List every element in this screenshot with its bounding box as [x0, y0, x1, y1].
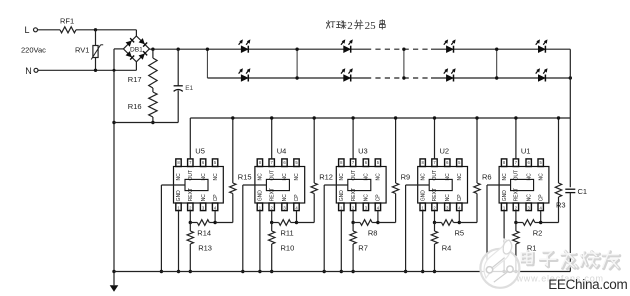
wire U1 CP pin down [540, 211, 542, 223]
resistor R7 [352, 223, 354, 232]
node RV1/N junction [94, 69, 97, 72]
svg-text:REXT: REXT [432, 188, 438, 201]
wire LED ladder tie [403, 49, 405, 78]
svg-text:REXT: REXT [269, 188, 275, 201]
wire RF1 to bridge top [76, 29, 136, 31]
varistor RV1 [95, 30, 97, 46]
svg-text:NC: NC [376, 173, 382, 181]
svg-text:NC: NC [294, 173, 300, 181]
node bottom rail left [112, 270, 115, 273]
wire IC OUT rail [190, 117, 570, 119]
resistor R12 [313, 118, 315, 183]
LED (top row) [344, 46, 351, 53]
svg-text:R9: R9 [401, 173, 411, 182]
wire U3 REXT pin down [352, 211, 354, 223]
wire L to RF1 [38, 29, 61, 31]
op-amp U3 (LED driver IC) [336, 147, 386, 211]
svg-text:R4: R4 [442, 243, 452, 252]
resistor R9 [395, 118, 397, 183]
svg-text:NC: NC [445, 173, 451, 181]
svg-text:N: N [25, 66, 32, 76]
wire U3 GND pin to bottom rail [340, 211, 342, 272]
wire U1 OUT pin to rail [515, 118, 517, 159]
svg-text:R13: R13 [198, 243, 212, 252]
wire mid rail (DC-) [114, 122, 178, 124]
ground [113, 272, 115, 286]
svg-text:NC: NC [502, 173, 508, 181]
LED (top row) [538, 46, 545, 53]
LED (top row) [446, 46, 453, 53]
svg-text:NC: NC [364, 194, 370, 202]
svg-text:REXT: REXT [514, 188, 520, 201]
svg-text:REXT: REXT [351, 188, 357, 201]
wire R3 to CP node [541, 222, 559, 224]
svg-text:NC: NC [526, 194, 532, 202]
wire U2 left feed [406, 184, 430, 186]
LED (top row) [241, 46, 248, 53]
wire U4 left feed [243, 184, 267, 186]
svg-text:RV1: RV1 [75, 46, 89, 55]
svg-text:GND: GND [339, 190, 345, 202]
op-amp U1 (LED driver IC) [499, 147, 549, 211]
wire LED string right end down [569, 49, 571, 187]
resistor R17 [151, 48, 154, 51]
wire U2 GND pin to bottom rail [422, 211, 424, 272]
svg-text:R5: R5 [455, 228, 465, 237]
wire LED ladder tie [496, 49, 498, 78]
wire U5 OUT pin to rail [189, 118, 191, 159]
svg-text:NC: NC [526, 173, 532, 181]
svg-text:GND: GND [420, 190, 426, 202]
resistor R11 [272, 222, 279, 224]
bridge rectifier DB1 [123, 36, 149, 62]
wire U3 CP pin down [377, 211, 379, 223]
wire bottom rail [114, 271, 570, 273]
svg-text:R14: R14 [197, 228, 211, 237]
wire LED string bottom row [207, 77, 366, 79]
svg-text:NC: NC [282, 173, 288, 181]
wire bridge left vertex to left vertical (DC-) [114, 48, 123, 50]
svg-text:2: 2 [347, 20, 353, 32]
svg-text:R17: R17 [128, 75, 142, 84]
svg-text:R12: R12 [319, 173, 333, 182]
svg-text:REXT: REXT [188, 188, 194, 201]
resistor R1 [515, 223, 517, 232]
svg-text:OUT: OUT [432, 170, 438, 181]
capacitor E1 [177, 48, 180, 51]
wire R9 to CP node [378, 222, 396, 224]
capacitor C1 [565, 188, 575, 190]
svg-text:NC: NC [364, 173, 370, 181]
LED (bottom row) [538, 75, 545, 82]
svg-text:R16: R16 [128, 102, 142, 111]
op-amp U4 (LED driver IC) [255, 147, 305, 211]
svg-text:R7: R7 [358, 243, 368, 252]
wire U1 REXT pin down [515, 211, 517, 223]
svg-text:R10: R10 [281, 243, 295, 252]
resistor R16 [152, 88, 154, 92]
LED (bottom row) [446, 75, 453, 82]
resistor R10 [271, 223, 273, 232]
wire LED ladder tie [206, 49, 208, 78]
svg-text:CP: CP [376, 194, 382, 202]
svg-text:RF1: RF1 [60, 17, 74, 26]
node L/RV1 junction [94, 28, 97, 31]
node N wire crossing [113, 69, 116, 72]
LED (bottom row) [344, 75, 351, 82]
wire U2 REXT pin down [434, 211, 436, 223]
svg-text:OUT: OUT [188, 170, 194, 181]
svg-text:R6: R6 [482, 173, 492, 182]
svg-text:R3: R3 [556, 201, 566, 210]
wire U1 left feed [487, 184, 511, 186]
wire DC+ rail / LED string top row [148, 48, 150, 50]
resistor R4 [434, 223, 436, 232]
svg-text:OUT: OUT [351, 170, 357, 181]
op-amp U5 (LED driver IC) [174, 147, 224, 211]
wire R6 to CP node [459, 222, 477, 224]
wire U5 left feed [161, 184, 185, 186]
svg-text:R11: R11 [281, 228, 294, 237]
wire U3 left feed [324, 184, 348, 186]
resistor R5 [435, 222, 442, 224]
svg-text:NC: NC [282, 194, 288, 202]
svg-text:U4: U4 [277, 147, 287, 156]
resistor R2 [516, 222, 523, 224]
svg-text:NC: NC [201, 173, 207, 181]
svg-text:L: L [25, 25, 30, 35]
wire U4 CP pin down [296, 211, 298, 223]
svg-text:NC: NC [445, 194, 451, 202]
wire LED ladder tie [296, 49, 298, 78]
wire R15 to CP node [215, 222, 233, 224]
svg-text:NC: NC [538, 173, 544, 181]
resistor R8 [353, 222, 360, 224]
svg-text:U1: U1 [521, 147, 531, 156]
svg-text:U2: U2 [440, 147, 450, 156]
wire U2 CP pin down [458, 211, 460, 223]
svg-text:CP: CP [294, 194, 300, 202]
svg-text:NC: NC [213, 173, 219, 181]
resistor R13 [189, 223, 191, 232]
svg-text:NC: NC [258, 173, 264, 181]
svg-text:CP: CP [213, 194, 219, 202]
resistor R14 [190, 222, 197, 224]
svg-text:CP: CP [457, 194, 463, 202]
svg-text:DB1: DB1 [130, 47, 143, 54]
wire U1 GND pin to bottom rail [503, 211, 505, 272]
wire U5 CP pin down [214, 211, 216, 223]
wire U5 GND pin to bottom rail [178, 211, 180, 272]
svg-text:25: 25 [365, 20, 377, 32]
svg-text:NC: NC [339, 173, 345, 181]
watermark logo + text (decorative) [480, 239, 519, 288]
svg-text:R8: R8 [368, 228, 378, 237]
title 灯珠2并25串 [326, 21, 335, 29]
svg-text:U5: U5 [195, 147, 205, 156]
svg-text:220Vac: 220Vac [21, 46, 46, 55]
svg-text:R15: R15 [238, 173, 252, 182]
resistor RF1 [60, 27, 76, 33]
resistor R6 [476, 118, 478, 183]
svg-text:C1: C1 [578, 187, 588, 196]
wire U4 GND pin to bottom rail [259, 211, 261, 272]
wire R12 to CP node [297, 222, 315, 224]
svg-text:NC: NC [201, 194, 207, 202]
wire U4 OUT pin to rail [271, 118, 273, 159]
wire U3 OUT pin to rail [352, 118, 354, 159]
op-amp U2 (LED driver IC) [418, 147, 468, 211]
wire U2 OUT pin to rail [434, 118, 436, 159]
LED (bottom row) [241, 75, 248, 82]
svg-text:GND: GND [176, 190, 182, 202]
wire U5 REXT pin down [189, 211, 191, 223]
svg-text:GND: GND [258, 190, 264, 202]
svg-text:E1: E1 [185, 85, 193, 92]
resistor R15 [232, 118, 234, 183]
svg-text:EEChina.com: EEChina.com [548, 277, 627, 292]
resistor R3 [558, 118, 560, 183]
svg-text:NC: NC [457, 173, 463, 181]
wire N to bridge bottom [38, 69, 136, 71]
svg-text:R2: R2 [533, 228, 543, 237]
svg-text:OUT: OUT [514, 170, 520, 181]
node mid rail [112, 121, 115, 124]
svg-text:NC: NC [420, 173, 426, 181]
svg-text:CP: CP [538, 194, 544, 202]
svg-text:U3: U3 [358, 147, 368, 156]
svg-text:OUT: OUT [269, 170, 275, 181]
svg-text:NC: NC [176, 173, 182, 181]
svg-text:GND: GND [502, 190, 508, 202]
wire U4 REXT pin down [271, 211, 273, 223]
